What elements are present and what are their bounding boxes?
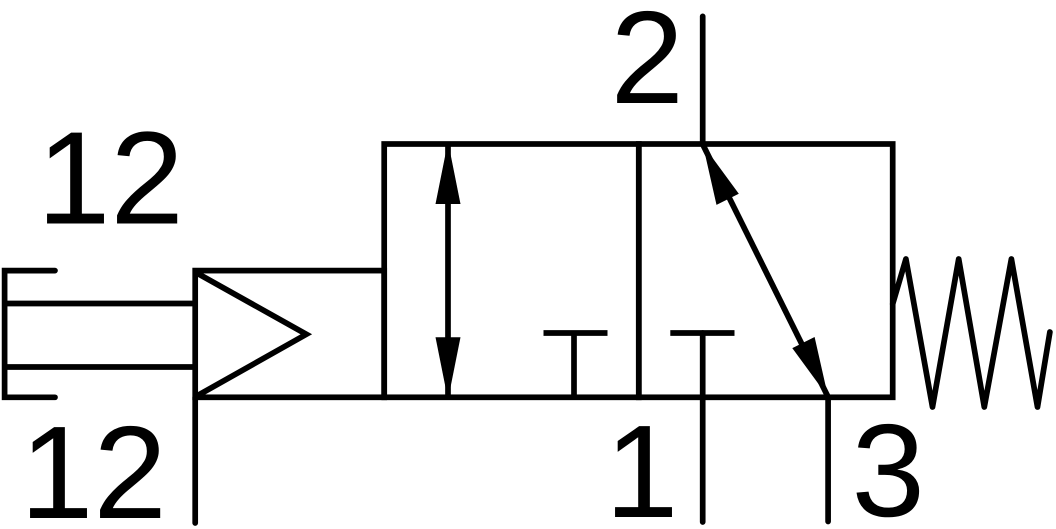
arrowhead up (flow path 1-2 top) xyxy=(436,142,461,205)
port 2 connection line xyxy=(700,16,706,144)
svg-text:3: 3 xyxy=(852,397,925,529)
port 3 connection line xyxy=(825,397,831,521)
arrowhead lower-right (flow path 2-3 bottom) xyxy=(792,337,828,397)
valve body right box (rest position) xyxy=(639,144,893,397)
pilot triangle symbol xyxy=(197,273,306,396)
pilot signal double line xyxy=(5,304,196,368)
arrowhead down (flow path 1-2 bottom) xyxy=(436,337,461,400)
flow-path diagonal arrow 2-3 in right box xyxy=(703,145,828,398)
svg-text:12: 12 xyxy=(20,399,167,529)
return spring xyxy=(893,259,1050,407)
blocked port 3 symbol (T) in left box xyxy=(544,333,608,397)
arrowhead upper-left (flow path 2-3 top) xyxy=(703,145,739,205)
blocked port 1 symbol (T) in right box xyxy=(670,330,734,336)
svg-text:12: 12 xyxy=(37,105,184,252)
svg-text:1: 1 xyxy=(605,398,678,529)
pilot port 12 connection line xyxy=(192,397,198,523)
svg-text:2: 2 xyxy=(611,0,684,131)
pilot actuator box xyxy=(195,271,384,398)
port 1 connection line with T stem xyxy=(700,333,706,522)
flow-path double arrow 1-2 in left box xyxy=(445,145,451,396)
valve body left box (working position 12) xyxy=(384,144,639,397)
pilot line end bracket xyxy=(5,271,55,398)
